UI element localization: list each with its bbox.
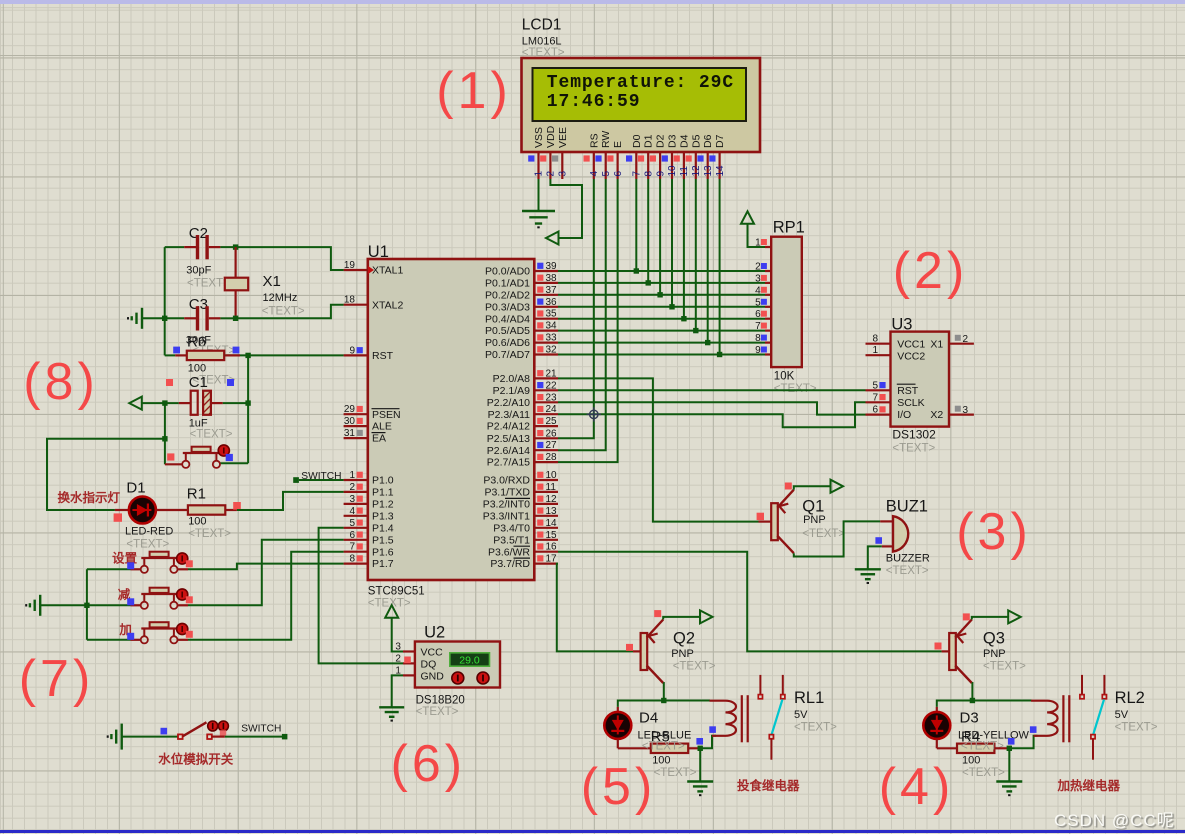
svg-text:<TEXT>: <TEXT> <box>642 741 685 753</box>
U1 pin 7 state square <box>357 543 363 549</box>
wire D3 top stub <box>936 707 938 712</box>
svg-text:32: 32 <box>546 345 558 356</box>
U1 pin 24 stub <box>534 413 558 415</box>
ground below R5 <box>687 780 713 782</box>
RP1 pin 3 state square <box>761 275 767 281</box>
switch right terminal <box>207 734 212 739</box>
relay RL2 common contact pin <box>1081 675 1083 695</box>
relay RL2 lever terminal <box>1091 735 1095 739</box>
svg-text:D4: D4 <box>639 710 658 727</box>
junction D7 / AD7 <box>717 352 722 357</box>
wire LCD D1 vertical <box>647 179 649 283</box>
RP1 pin 8 stub <box>765 342 771 344</box>
LCD1 pin 11 stub <box>683 152 685 179</box>
svg-text:18: 18 <box>344 295 356 306</box>
svg-text:P3.4/T0: P3.4/T0 <box>493 522 530 534</box>
svg-text:6: 6 <box>872 405 878 416</box>
wire reset button left <box>165 463 182 465</box>
svg-text:DS1302: DS1302 <box>892 428 936 442</box>
resistor R5 body <box>651 744 688 753</box>
net terminal SWITCH (switch) <box>282 734 288 740</box>
svg-text:12MHz: 12MHz <box>263 292 298 304</box>
svg-text:39: 39 <box>546 261 558 272</box>
U3 pin 3 X2 stub <box>949 414 974 416</box>
svg-text:7: 7 <box>872 392 878 403</box>
relay RL1 NO contact pin <box>782 675 784 695</box>
svg-text:35: 35 <box>546 309 558 320</box>
wire ground to button rail <box>40 604 130 606</box>
LCD1 pin 2 state square <box>540 155 546 161</box>
LCD1 pin 3 stub <box>561 152 563 179</box>
svg-text:<TEXT>: <TEXT> <box>654 767 697 779</box>
U1 pin 29 stub <box>344 413 368 415</box>
power terminal Q1 emitter <box>831 480 844 493</box>
svg-text:P3.7/RD: P3.7/RD <box>490 558 530 570</box>
LED D4 <box>604 712 631 739</box>
wire X1 bottom lead <box>235 290 237 318</box>
Q2 emitter marker square <box>654 610 661 617</box>
RP1 10K body <box>771 237 802 367</box>
svg-text:26: 26 <box>546 428 558 439</box>
svg-text:7: 7 <box>349 542 355 553</box>
wire D4 top stub <box>617 707 619 712</box>
wire C1 row left <box>142 402 179 404</box>
ground below LCD pin1 <box>522 210 555 212</box>
U1 pin 22 stub <box>534 389 558 391</box>
U3 pin 7 state square <box>879 394 885 400</box>
wire C1 row right <box>211 402 223 404</box>
svg-text:14: 14 <box>715 165 726 177</box>
svg-text:5: 5 <box>349 518 355 529</box>
RP1 pin 7 stub <box>765 330 771 332</box>
U3 RST overline <box>897 383 916 385</box>
LCD1 pin 3 state square <box>552 155 558 161</box>
svg-text:LCD1: LCD1 <box>522 17 562 34</box>
wire LCD D7 vertical <box>719 179 721 355</box>
wire Q1 collector to BUZ1 <box>794 521 880 556</box>
svg-text:P1.1: P1.1 <box>372 487 394 499</box>
svg-text:5: 5 <box>872 380 878 391</box>
svg-text:7: 7 <box>755 321 761 332</box>
junction R4 right <box>1007 746 1012 751</box>
power terminal VDD left arrow <box>546 232 559 245</box>
svg-text:1: 1 <box>534 171 545 177</box>
U3 pin 2 X1 stub <box>949 343 974 345</box>
wire BUZ1 to ground <box>868 546 882 569</box>
wire R1 right stub <box>225 509 237 511</box>
RP1 pin 4 stub <box>765 294 771 296</box>
svg-text:P1.6: P1.6 <box>372 546 394 558</box>
svg-text:DQ: DQ <box>421 659 437 671</box>
LCD1 pin 4 state square <box>584 155 590 161</box>
wire P1.4 to U2 DQ <box>319 528 403 664</box>
U1 pin 34 state square <box>537 322 543 328</box>
capacitor C1 left plate <box>191 391 198 415</box>
wire P2.0/A8 to Q1 base <box>558 378 759 521</box>
U3 pin 7 stub <box>866 401 891 403</box>
wire junction to RL1 coil bottom <box>700 736 716 749</box>
relay RL1 lever <box>771 700 782 736</box>
ground terminal left of buttons <box>39 595 41 616</box>
U1 pin 10 state square <box>537 472 543 478</box>
Q3 emitter marker square <box>963 613 970 620</box>
svg-text:38: 38 <box>546 273 558 284</box>
svg-text:11: 11 <box>546 482 557 493</box>
U1 pin 11 state square <box>537 484 543 490</box>
BUZ1 bottom pin stub <box>882 545 893 547</box>
svg-text:10: 10 <box>546 470 558 481</box>
svg-text:100: 100 <box>188 516 206 528</box>
svg-text:<TEXT>: <TEXT> <box>262 306 305 318</box>
LCD1 screen <box>533 68 747 121</box>
ground terminal left of C3 <box>141 308 143 329</box>
svg-text:11: 11 <box>679 166 690 177</box>
svg-text:<TEXT>: <TEXT> <box>774 383 817 395</box>
BUZ1 marker blue <box>875 537 882 544</box>
wire 加 to P1.6 <box>188 552 344 640</box>
junction C1 left <box>162 400 167 405</box>
svg-text:3: 3 <box>349 494 355 505</box>
svg-text:15: 15 <box>546 530 558 541</box>
svg-text:29: 29 <box>344 404 356 415</box>
svg-text:9: 9 <box>655 171 666 177</box>
U1 pin 38 state square <box>537 275 543 281</box>
wire R1 to P1.1 <box>237 492 344 510</box>
wire P3.7/RD to Q2 base <box>557 564 633 652</box>
RP1 pin 1 state square <box>761 239 767 245</box>
svg-text:X2: X2 <box>930 409 943 421</box>
junction C3 X1 bottom <box>233 316 238 321</box>
LCD1 pin 12 stub <box>695 152 697 179</box>
switch actuator base square <box>220 730 226 735</box>
svg-text:P0.6/AD6: P0.6/AD6 <box>485 337 530 349</box>
svg-text:2: 2 <box>963 334 969 345</box>
U1 pin 14 state square <box>537 520 543 526</box>
wire D1 left stub <box>115 509 129 511</box>
svg-text:<TEXT>: <TEXT> <box>886 565 929 577</box>
svg-text:2: 2 <box>349 482 355 493</box>
wire button right link <box>220 462 248 464</box>
svg-text:6: 6 <box>613 171 624 177</box>
U1 pin 4 state square <box>357 508 363 514</box>
svg-text:D5: D5 <box>690 134 702 148</box>
U1 pin 22 state square <box>537 382 543 388</box>
wire Q2 junction to D4 <box>618 701 664 707</box>
svg-text:3: 3 <box>963 405 969 416</box>
LED D3 <box>923 712 950 739</box>
svg-text:Q2: Q2 <box>673 630 695 648</box>
U1 pin 35 state square <box>537 310 543 316</box>
U1 pin 17 state square <box>537 555 543 561</box>
svg-text:<TEXT>: <TEXT> <box>802 528 845 540</box>
wire 设置 to P1.7 <box>188 564 344 570</box>
reset button marker red <box>167 453 174 460</box>
button 加 left stub <box>131 639 141 641</box>
switch marker blue <box>161 728 168 735</box>
svg-text:I/O: I/O <box>897 409 911 421</box>
U1 pin 31 stub <box>344 437 368 439</box>
U1 pin 39 stub <box>534 270 558 272</box>
power terminal above U2 <box>385 605 398 618</box>
button 减 left stub <box>131 604 141 606</box>
button 减 marker red <box>186 596 193 603</box>
svg-text:13: 13 <box>703 165 714 177</box>
svg-text:ALE: ALE <box>372 421 392 433</box>
button 设置 right stub <box>178 568 189 570</box>
wire P0.5 to RP1 pin 7 <box>558 330 765 332</box>
R5 marker blue lower <box>696 738 703 745</box>
LCD1 pin 10 stub <box>671 152 673 179</box>
svg-text:加热继电器: 加热继电器 <box>1057 778 1121 793</box>
svg-text:P2.7/A15: P2.7/A15 <box>487 457 530 469</box>
wire LCD pin5 RW vertical <box>558 179 606 450</box>
svg-text:SCLK: SCLK <box>897 397 924 409</box>
U1 pin 37 stub <box>534 294 558 296</box>
U2 pin 1 stub <box>403 674 415 676</box>
resistor R6 body <box>187 351 224 360</box>
RP1 pin 5 state square <box>761 299 767 305</box>
svg-text:P2.3/A11: P2.3/A11 <box>488 409 531 421</box>
wire P0.3 to RP1 pin 5 <box>558 306 765 308</box>
resistor R4 body <box>957 744 994 753</box>
wire ground rail left (crystal) <box>164 247 166 355</box>
relay RL2 tail <box>1092 739 1094 760</box>
U1 pin 25 stub <box>534 425 558 427</box>
wire Q3 emitter to power <box>972 617 1008 620</box>
svg-text:RL2: RL2 <box>1115 689 1145 707</box>
relay RL1 core <box>741 695 743 742</box>
wire C2 to XTAL1 <box>236 247 344 270</box>
svg-text:LED-RED: LED-RED <box>125 526 173 538</box>
U1 pin 2 stub <box>344 491 368 493</box>
U1 pin 12 stub <box>534 503 558 505</box>
Q2 base marker square <box>626 644 633 651</box>
LCD1 pin 9 state square <box>650 155 656 161</box>
svg-text:BUZ1: BUZ1 <box>886 498 928 516</box>
Q3 base marker square <box>935 643 942 650</box>
svg-text:25: 25 <box>546 416 558 427</box>
junction D0 / AD0 <box>634 268 639 273</box>
svg-text:换水指示灯: 换水指示灯 <box>58 490 121 505</box>
U1 pin 13 state square <box>537 508 543 514</box>
button 减 right stub <box>178 604 189 606</box>
junction D4 / AD4 <box>681 316 686 321</box>
svg-text:(7): (7) <box>19 650 95 708</box>
reset button actuator <box>218 445 229 456</box>
svg-text:P0.7/AD7: P0.7/AD7 <box>485 349 530 361</box>
U1 pin 12 state square <box>537 496 543 502</box>
svg-text:5V: 5V <box>794 709 808 721</box>
svg-text:VDD: VDD <box>545 125 557 148</box>
transistor Q1 <box>771 503 778 540</box>
svg-text:3: 3 <box>755 273 761 284</box>
LCD1 pin 13 state square <box>697 155 703 161</box>
junction Q3 collector <box>970 698 975 703</box>
svg-text:<TEXT>: <TEXT> <box>416 706 459 718</box>
svg-text:6: 6 <box>755 309 761 320</box>
U2 up button <box>452 672 464 684</box>
U1 pin 29 state square <box>357 406 363 412</box>
svg-text:2: 2 <box>395 654 401 665</box>
origin marker crosshair <box>587 407 601 421</box>
bottom window border <box>0 830 1185 833</box>
wire LCD pin1 to ground <box>538 179 540 211</box>
U1 pin 18 stub <box>344 304 368 306</box>
U1 pin 37 state square <box>537 287 543 293</box>
wire P2.2/A10 to U3 SCLK <box>558 402 866 414</box>
svg-text:RS: RS <box>588 133 600 148</box>
U1 pin 32 stub <box>534 353 558 355</box>
U1 STC89C51 body <box>368 259 535 580</box>
junction C1 right <box>245 400 250 405</box>
relay RL2 lever <box>1093 700 1104 736</box>
svg-text:(5): (5) <box>581 758 657 816</box>
svg-text:PSEN: PSEN <box>372 409 401 421</box>
junction D6 / AD6 <box>705 340 710 345</box>
svg-text:Temperature: 29C: Temperature: 29C <box>547 73 734 93</box>
svg-text:10: 10 <box>667 165 678 177</box>
Q1 emitter marker square <box>785 483 792 490</box>
U3 pin 8 stub <box>866 343 891 345</box>
svg-text:D3: D3 <box>667 134 679 148</box>
button rail vertical <box>86 569 88 640</box>
reset button <box>185 453 187 461</box>
wire R6 left <box>165 354 176 356</box>
wire junction to ground (R5) <box>699 748 701 781</box>
button 设置 <box>143 558 145 566</box>
svg-text:P2.0/A8: P2.0/A8 <box>493 373 531 385</box>
junction C3 left rail <box>162 316 167 321</box>
svg-text:17: 17 <box>546 554 558 565</box>
svg-text:P3.5/T1: P3.5/T1 <box>493 534 530 546</box>
svg-text:D3: D3 <box>960 710 979 727</box>
svg-text:1: 1 <box>872 345 878 356</box>
RP1 pin 1 stub <box>765 246 771 248</box>
wire P0.1 to RP1 pin 3 <box>558 282 765 284</box>
U1 pin 34 stub <box>534 330 558 332</box>
R6 marker square right <box>233 347 240 354</box>
svg-text:29.0: 29.0 <box>459 654 480 666</box>
button 加 marker red <box>186 631 193 638</box>
svg-text:<TEXT>: <TEXT> <box>983 661 1026 673</box>
U2 pin 3 stub <box>403 650 415 652</box>
LCD1 pin 1 state square <box>528 155 534 161</box>
svg-text:P0.0/AD0: P0.0/AD0 <box>485 266 530 278</box>
switch actuator circle 2 <box>218 721 228 731</box>
wire C3 to XTAL2 <box>236 305 344 319</box>
U2 pin 2 stub <box>403 662 415 664</box>
svg-text:PNP: PNP <box>983 648 1006 660</box>
junction D2 / AD2 <box>657 292 662 297</box>
C1 marker square right <box>227 379 234 386</box>
U2 DS18B20 body <box>415 642 500 688</box>
LCD1 pin 9 stub <box>659 152 661 179</box>
Q3 base stub <box>942 650 950 652</box>
svg-text:<TEXT>: <TEXT> <box>126 539 169 551</box>
C1 marker square left <box>166 379 173 386</box>
transistor Q2 <box>641 633 648 670</box>
svg-text:P1.3: P1.3 <box>372 510 394 522</box>
svg-text:X1: X1 <box>930 339 943 351</box>
U1 pin 27 stub <box>534 449 558 451</box>
svg-text:RST: RST <box>897 385 919 397</box>
svg-text:2: 2 <box>546 171 557 177</box>
svg-text:8: 8 <box>755 333 761 344</box>
svg-text:<TEXT>: <TEXT> <box>892 443 935 455</box>
svg-text:D1: D1 <box>126 480 145 497</box>
wire Q2 junction to RL1 coil top <box>664 700 710 702</box>
svg-text:21: 21 <box>546 368 558 379</box>
wire Q3 junction to RL2 coil top <box>972 700 1031 702</box>
junction R5 right <box>698 746 703 751</box>
svg-text:P2.1/A9: P2.1/A9 <box>493 385 531 397</box>
LCD1 pin 6 stub <box>616 152 618 179</box>
U1 pin 26 state square <box>537 430 543 436</box>
wire R4 right stub <box>994 747 1009 749</box>
wire R5 right stub <box>688 747 700 749</box>
svg-text:R1: R1 <box>187 486 206 503</box>
svg-text:12: 12 <box>691 165 702 177</box>
relay RL2 core <box>1062 695 1064 742</box>
wire 减 to P1.5 <box>188 540 344 606</box>
ground below BUZ1 <box>855 568 881 570</box>
button 减 actuator <box>177 589 188 600</box>
wire junction to RL2 coil bottom <box>1009 736 1037 749</box>
svg-text:(3): (3) <box>956 503 1032 561</box>
R5 marker blue upper <box>709 726 716 733</box>
svg-text:(2): (2) <box>893 242 969 300</box>
relay RL2 coil <box>1031 701 1058 736</box>
junction C2 X1 top <box>233 244 238 249</box>
wire RP1 pin1 to power <box>748 224 766 247</box>
svg-text:RW: RW <box>600 131 612 148</box>
relay RL1 coil <box>710 701 737 736</box>
RP1 pin 8 state square <box>761 335 767 341</box>
wire D3 bottom to R4 <box>936 739 938 748</box>
U1 pin 36 stub <box>534 306 558 308</box>
svg-text:D0: D0 <box>631 134 643 148</box>
svg-text:P0.4/AD4: P0.4/AD4 <box>485 313 530 325</box>
svg-text:(6): (6) <box>391 735 467 793</box>
svg-text:VEE: VEE <box>557 127 569 148</box>
switch lever <box>183 722 207 736</box>
resistor R1 body <box>188 505 225 514</box>
LCD1 pin 8 state square <box>638 155 644 161</box>
U1 pin 9 stub <box>344 354 368 356</box>
Q2 base stub <box>633 650 641 652</box>
svg-text:DS18B20: DS18B20 <box>416 695 465 707</box>
svg-text:P1.0: P1.0 <box>372 475 394 487</box>
button 减 <box>143 594 145 602</box>
svg-text:9: 9 <box>755 345 761 356</box>
U1 pin 28 stub <box>534 461 558 463</box>
power terminal Q3 emitter <box>1008 610 1021 623</box>
wire LCD D2 vertical <box>659 179 661 295</box>
svg-text:19: 19 <box>344 260 356 271</box>
button 加 marker blue <box>127 633 134 640</box>
svg-text:30: 30 <box>344 416 356 427</box>
crystal X1 body <box>225 278 248 291</box>
RP1 pin 2 stub <box>765 270 771 272</box>
svg-text:LM016L: LM016L <box>522 36 562 48</box>
junction R6 right <box>245 353 250 358</box>
U1 pin 33 state square <box>537 334 543 340</box>
svg-text:RST: RST <box>372 350 394 362</box>
wire P2.1/A9 to U3 RST <box>558 389 866 391</box>
svg-text:27: 27 <box>546 440 558 451</box>
RP1 pin 6 state square <box>761 311 767 317</box>
LCD1 pin 4 stub <box>593 152 595 179</box>
